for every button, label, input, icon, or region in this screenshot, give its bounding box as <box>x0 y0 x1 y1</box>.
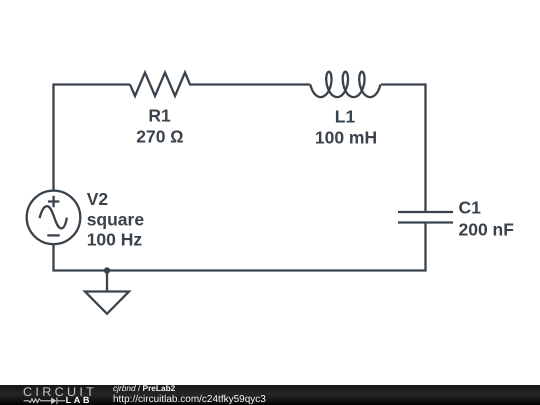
svg-text:LAB: LAB <box>66 395 93 405</box>
svg-text:V2: V2 <box>87 189 109 209</box>
svg-text:C1: C1 <box>459 198 482 218</box>
svg-text:http://circuitlab.com/c24tfky5: http://circuitlab.com/c24tfky59qyc3 <box>113 393 266 404</box>
svg-text:square: square <box>87 209 145 229</box>
svg-text:270 Ω: 270 Ω <box>136 126 184 146</box>
svg-text:L1: L1 <box>335 107 356 127</box>
svg-text:cjrbnd / PreLab2: cjrbnd / PreLab2 <box>113 385 176 393</box>
svg-text:100 Hz: 100 Hz <box>87 229 143 249</box>
svg-text:200 nF: 200 nF <box>459 220 515 240</box>
svg-text:100 mH: 100 mH <box>315 128 377 148</box>
svg-text:R1: R1 <box>148 105 171 125</box>
